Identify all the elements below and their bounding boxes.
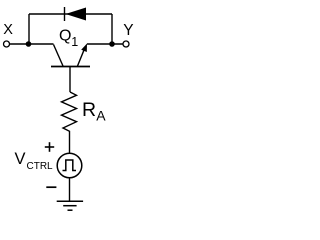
svg-text:CTRL: CTRL bbox=[27, 161, 54, 172]
svg-text:Y: Y bbox=[123, 22, 133, 39]
svg-text:1: 1 bbox=[71, 35, 78, 49]
svg-text:R: R bbox=[82, 99, 96, 121]
svg-text:A: A bbox=[96, 108, 106, 124]
svg-text:V: V bbox=[15, 150, 26, 168]
svg-text:X: X bbox=[3, 22, 13, 38]
svg-text:Q: Q bbox=[59, 28, 71, 45]
